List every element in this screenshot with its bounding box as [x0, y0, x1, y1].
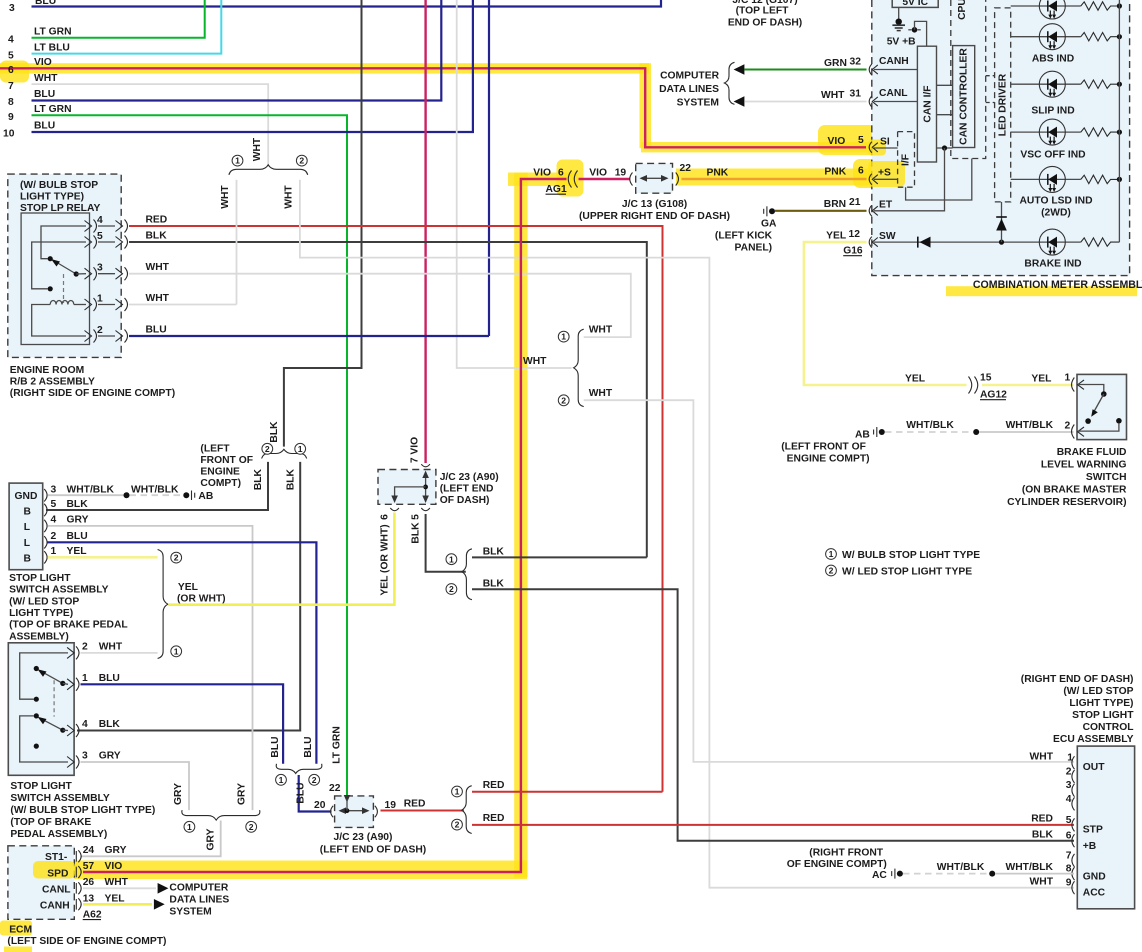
VSC OFF IND label — [1020, 150, 1085, 161]
G16 label underlined — [843, 246, 863, 257]
svg-text:3: 3 — [82, 751, 88, 762]
svg-text:WHT/BLK: WHT/BLK — [937, 862, 985, 873]
svg-text:WHT/BLK: WHT/BLK — [906, 420, 954, 431]
node 2 circle BLK brace — [262, 443, 273, 454]
bulb switch pin 3 connector — [67, 756, 79, 769]
svg-text:22: 22 — [680, 163, 692, 174]
bulb switch blade upper with arrow — [38, 669, 69, 686]
node 7 — [8, 81, 14, 92]
ET internal wire to junction — [874, 148, 945, 211]
svg-text:24: 24 — [83, 845, 95, 856]
legend text 1 — [842, 550, 980, 561]
BLU under-brace — [276, 764, 322, 774]
svg-text:GND: GND — [15, 491, 38, 502]
relay switch blade with arrow — [51, 259, 76, 274]
LED DRIVER dashed box — [995, 8, 1011, 202]
svg-text:SYSTEM: SYSTEM — [169, 907, 211, 918]
ECM pin 24 labels — [83, 845, 127, 856]
ECU pin 6 arc — [1072, 834, 1075, 847]
svg-text:R/B 2 ASSEMBLY: R/B 2 ASSEMBLY — [10, 377, 95, 388]
svg-text:(RIGHT FRONT: (RIGHT FRONT — [809, 848, 883, 859]
ECU pin 1 arc — [1072, 756, 1075, 769]
highlight marker VIO 5 label blob at meter — [818, 125, 886, 155]
svg-text:WHT: WHT — [220, 185, 231, 209]
svg-text:BLU: BLU — [296, 782, 307, 803]
svg-text:FRONT OF: FRONT OF — [200, 455, 253, 466]
relay pin 5 wire BLK to vertical — [129, 242, 647, 557]
svg-text:BLK: BLK — [99, 719, 121, 730]
LT GRN entry arrow pin 22 — [344, 795, 351, 803]
svg-text:LEVEL WARNING: LEVEL WARNING — [1041, 460, 1127, 471]
labels BRN 21 — [824, 197, 861, 210]
LED switch caption — [9, 573, 128, 643]
AB label — [198, 491, 213, 502]
svg-text:(LEFT KICK: (LEFT KICK — [715, 231, 773, 242]
LED row 5 wire — [1011, 178, 1081, 180]
svg-text:1: 1 — [51, 546, 57, 557]
highlight marker over SPD label in ECM — [33, 861, 75, 879]
ECM pin name SPD — [47, 868, 68, 879]
svg-text:SI: SI — [880, 137, 890, 148]
combination meter caption — [973, 279, 1142, 291]
relay pin 2 number — [97, 325, 103, 336]
svg-text:COMPT): COMPT) — [200, 478, 241, 489]
ECM pin 57 connector — [76, 866, 81, 878]
brake switch pin 2 connector — [1072, 425, 1084, 439]
svg-text:GND: GND — [1083, 872, 1106, 883]
AUTO LSD IND label — [1019, 196, 1092, 219]
svg-text:WHT: WHT — [589, 325, 613, 336]
label BLK rotated branch 1 — [285, 468, 296, 490]
J/C 23 lower pin 20 arc — [331, 806, 334, 818]
svg-text:GRY: GRY — [105, 845, 127, 856]
AC connector symbol — [872, 869, 903, 881]
relay assembly caption — [10, 365, 175, 399]
labels WHT 31 — [821, 89, 861, 102]
svg-text:(TOP OF BRAKE: (TOP OF BRAKE — [10, 817, 91, 828]
svg-text:COMPUTER: COMPUTER — [169, 883, 228, 894]
svg-text:RED: RED — [146, 215, 168, 226]
pin 2 labels — [51, 531, 88, 542]
bulb switch pin 4 connector — [67, 724, 79, 737]
svg-text:AG1: AG1 — [546, 184, 567, 195]
wire 8 label BLU — [34, 89, 55, 100]
svg-text:SW: SW — [879, 231, 896, 242]
wire 7 label WHT — [34, 73, 58, 84]
LED switch pin labels inside — [15, 491, 38, 565]
svg-text:21: 21 — [849, 197, 861, 208]
svg-text:4: 4 — [1066, 794, 1072, 805]
BRAKE IND label — [1024, 259, 1081, 270]
computer data lines arrow CANH — [734, 64, 745, 75]
legend text 2 — [842, 567, 972, 578]
svg-text:WHT: WHT — [1030, 751, 1054, 762]
J/C 23 lower pin 19 arc — [375, 806, 378, 818]
wire 4 label LT GRN — [34, 27, 72, 38]
svg-text:3: 3 — [97, 263, 103, 274]
pin 3 labels — [82, 751, 121, 762]
bulb switch caption — [10, 781, 155, 840]
AB tick bars — [192, 491, 195, 501]
svg-text:WHT: WHT — [99, 642, 123, 653]
LED row 4 wire — [1011, 131, 1081, 133]
svg-text:(TOP LEFT: (TOP LEFT — [736, 6, 790, 17]
svg-text:YEL: YEL — [105, 894, 125, 905]
wire BLK branch 1 to switch pin 4 — [77, 462, 300, 731]
label WHT on trunk — [523, 356, 547, 367]
svg-text:(RIGHT END OF DASH): (RIGHT END OF DASH) — [1021, 674, 1134, 685]
relay mechanical dashed link — [63, 274, 65, 303]
ECU wire labels — [1006, 751, 1054, 887]
wire 7 VIO vertical trunk to J/C 23 — [424, 0, 426, 463]
svg-text:2: 2 — [174, 553, 179, 563]
svg-text:WHT: WHT — [1030, 876, 1054, 887]
J/C 13 internal double arrow — [640, 175, 669, 182]
brake switch blade with arrow — [1091, 394, 1104, 417]
J/C 23 upper internal branch to left with arrow — [391, 487, 425, 503]
svg-text:END OF DASH): END OF DASH) — [728, 18, 802, 29]
svg-text:BLK: BLK — [483, 547, 505, 558]
svg-text:1: 1 — [561, 332, 566, 342]
highlight marker under COMBINATION METER ASSEMBLY caption — [946, 286, 1137, 296]
wire WHT/BLK to pin 2 — [979, 431, 1073, 433]
highlight marker over +S pin area — [868, 161, 905, 187]
svg-text:ENGINE ROOM: ENGINE ROOM — [10, 365, 84, 376]
computer data lines brace top — [724, 62, 734, 104]
relay blade to pin 3 — [76, 273, 86, 275]
wire BLU vertical to relay pin 2 — [488, 0, 490, 336]
labels YEL 1 — [1031, 373, 1070, 385]
svg-text:(OR WHT): (OR WHT) — [177, 594, 226, 605]
svg-text:57: 57 — [83, 861, 95, 872]
LED row 1 wire — [1011, 5, 1081, 7]
pin 4 labels — [82, 719, 120, 730]
bulb switch inner path pin 3 — [20, 716, 68, 762]
svg-text:1: 1 — [187, 822, 192, 832]
brake switch right contact dot — [1116, 418, 1122, 424]
pin 19 label — [385, 800, 397, 811]
label BLK rotated on trunk — [269, 421, 280, 443]
relay pin 1 number — [97, 294, 103, 305]
svg-text:BLU: BLU — [34, 89, 55, 100]
svg-text:BLU: BLU — [67, 531, 88, 542]
svg-text:L: L — [24, 538, 30, 549]
svg-text:ASSEMBLY): ASSEMBLY) — [9, 631, 69, 642]
computer data lines arrow 2 — [154, 899, 165, 910]
node 4 — [8, 35, 14, 46]
wire WHT branch 1 vertical to relay pin 1 — [236, 180, 238, 305]
svg-text:STP: STP — [1083, 825, 1103, 836]
meter pin CANL — [869, 88, 907, 107]
svg-text:(W/ BULB STOP LIGHT TYPE): (W/ BULB STOP LIGHT TYPE) — [10, 805, 155, 816]
label RED branch 2 — [483, 813, 505, 824]
ECM pin 13 labels — [83, 894, 125, 905]
AC location caption — [787, 848, 887, 871]
relay contact dot upper — [48, 256, 53, 261]
wire BLK branch 2 long run to ECU +B — [472, 589, 1074, 840]
BLU stem wire to J/C 23 pin 20 — [299, 775, 332, 812]
LED row 6 resistor — [1081, 238, 1120, 246]
label 5V +B — [887, 37, 916, 48]
svg-text:32: 32 — [850, 57, 862, 68]
LED row 1 rail dot — [1117, 3, 1122, 8]
svg-text:2: 2 — [249, 822, 254, 832]
svg-text:J/C 13 (G108): J/C 13 (G108) — [622, 199, 687, 210]
wire YEL from SW to AG12 — [804, 242, 967, 385]
wire BLK 5 stem from J/C 23 — [426, 514, 466, 572]
LED row 1 resistor — [1081, 2, 1120, 10]
svg-text:BLU: BLU — [35, 0, 56, 7]
LED switch pin 2 wire BLU — [48, 542, 317, 764]
label WHT rotated above brace — [252, 137, 263, 161]
svg-text:WHT: WHT — [146, 293, 170, 304]
svg-text:1: 1 — [1067, 753, 1073, 764]
AB ground point text block mid left — [200, 444, 253, 490]
labels WHT/BLK row — [906, 420, 1070, 432]
J/C 23 upper internal junction dot — [423, 485, 428, 490]
pin 22 label at J/C13 — [680, 163, 692, 174]
label RED branch 1 — [483, 780, 505, 791]
bulb switch pin 2 connector — [67, 646, 79, 659]
relay contact dot lower — [48, 286, 53, 291]
computer data lines arrow 1 — [158, 883, 169, 894]
relay caption line 3 — [20, 203, 100, 214]
svg-text:CANL: CANL — [879, 88, 908, 99]
svg-text:(W/ LED STOP: (W/ LED STOP — [9, 596, 79, 607]
svg-text:PNK: PNK — [707, 168, 729, 179]
relay blade pivot dot — [74, 271, 79, 276]
ECM pin name CANL — [42, 884, 71, 895]
svg-text:BLK: BLK — [483, 578, 505, 589]
svg-text:STOP LIGHT: STOP LIGHT — [9, 573, 71, 584]
LED driver link stubs — [986, 76, 995, 103]
svg-text:ET: ET — [879, 200, 893, 211]
svg-text:BLK: BLK — [146, 231, 168, 242]
svg-text:GRN: GRN — [824, 58, 847, 69]
svg-text:CPU: CPU — [957, 0, 968, 20]
highlight marker wire 6 to SI band — [641, 142, 880, 152]
CAN I/F to controller link 1 — [937, 84, 953, 86]
svg-text:DATA LINES: DATA LINES — [169, 895, 229, 906]
LED common rail — [1118, 0, 1120, 242]
A62 connector label — [83, 910, 102, 921]
svg-text:6: 6 — [380, 514, 391, 520]
svg-text:3: 3 — [9, 3, 15, 14]
node 2 circle near relay brace — [296, 155, 307, 166]
5V IC box (clipped) — [892, 0, 938, 8]
highlight marker along wire 6 VIO horizontal band — [0, 63, 649, 73]
brace RED 1-2 — [462, 786, 472, 834]
wire 5 LT BLU — [32, 0, 222, 54]
label BLU rotated branch 2 — [303, 736, 314, 757]
svg-text:AUTO LSD IND: AUTO LSD IND — [1019, 196, 1092, 207]
svg-text:LT GRN: LT GRN — [332, 726, 343, 764]
svg-text:RED: RED — [404, 799, 426, 810]
relay pin 3 wire WHT to vertical — [129, 274, 631, 337]
ECM pin 13 connector — [76, 898, 81, 910]
wire GRN to CANH — [744, 69, 866, 71]
svg-text:2: 2 — [1066, 767, 1072, 778]
node 2 circle YEL brace — [171, 552, 182, 563]
relay pin 4 connectors — [85, 220, 128, 233]
label GRY rotated branch 2 — [237, 783, 248, 805]
ECM pin 13 wire YEL — [83, 903, 152, 906]
brake switch internal wire pin 1 — [1079, 385, 1104, 392]
brake switch internal wire pin 2 — [1079, 423, 1119, 431]
wire 7 WHT — [32, 84, 269, 166]
AG1 label underlined — [546, 184, 567, 195]
svg-text:19: 19 — [615, 168, 627, 179]
svg-text:WHT/BLK: WHT/BLK — [1006, 420, 1054, 431]
svg-text:B: B — [24, 554, 31, 565]
LED switch pin 4 wire GRY — [48, 526, 253, 810]
svg-text:SWITCH ASSEMBLY: SWITCH ASSEMBLY — [10, 793, 109, 804]
relay pin 1 connectors — [85, 298, 128, 311]
svg-text:I/F: I/F — [901, 154, 912, 166]
wire 3 BLU horizontal — [32, 0, 662, 7]
bulb switch fixed dot (lower section) — [34, 713, 39, 718]
relay pin 4 wire label RED — [146, 215, 168, 226]
svg-text:6: 6 — [1066, 831, 1072, 842]
svg-text:BRN: BRN — [824, 199, 846, 210]
svg-text:A62: A62 — [83, 910, 102, 921]
labels VIO 5 at SI — [828, 135, 865, 147]
svg-text:2: 2 — [97, 325, 103, 336]
svg-text:4: 4 — [97, 215, 103, 226]
bulb switch fixed dot upper — [34, 666, 39, 671]
ECM pin 57 labels — [83, 861, 123, 872]
brake switch contact dot top — [1101, 391, 1107, 397]
CAN I/F to controller link 3 — [937, 147, 953, 149]
label BLU rotated branch 1 — [270, 736, 281, 757]
node 2 circle mid BLK — [446, 584, 457, 595]
relay contact feed pin 4 path — [41, 226, 86, 259]
svg-text:WHT: WHT — [283, 185, 294, 209]
meter pin CANH — [869, 56, 909, 75]
svg-text:ACC: ACC — [1083, 888, 1106, 899]
relay coil wiring — [32, 305, 86, 337]
label WHT rotated branch 2 — [283, 185, 294, 209]
svg-text:VIO: VIO — [828, 136, 846, 147]
ECM pin 26 labels — [83, 877, 129, 888]
node 1 circle near relay brace — [232, 155, 243, 166]
highlight marker over SI pin area — [868, 140, 886, 156]
svg-text:WHT: WHT — [34, 73, 58, 84]
wire WHT branch 2 long run to ECU ACC — [300, 180, 1074, 888]
svg-text:BLU: BLU — [303, 736, 314, 757]
svg-text:YEL: YEL — [67, 546, 87, 557]
svg-text:BLK: BLK — [1032, 829, 1054, 840]
svg-text:5: 5 — [97, 231, 103, 242]
YEL brace closing — [158, 550, 168, 659]
GRY under-brace — [182, 810, 260, 820]
AB splice dot — [183, 492, 189, 498]
relay caption line 2 — [20, 192, 84, 203]
svg-text:YEL: YEL — [1031, 374, 1051, 385]
label WHT/BLK mid — [937, 862, 985, 873]
svg-text:VIO: VIO — [34, 57, 52, 68]
node 9 — [8, 112, 14, 123]
GRY stem wire to ECM pin 24 — [81, 821, 221, 857]
svg-text:6: 6 — [558, 168, 564, 179]
svg-text:2: 2 — [51, 531, 57, 542]
highlight marker SPD label blob in ECM — [33, 861, 78, 880]
GA connector symbol — [764, 206, 775, 216]
highlight marker SPD VIO vertical band — [514, 173, 527, 878]
svg-text:CANH: CANH — [879, 56, 909, 67]
wire YEL from AG12 to brake fluid switch pin 1 — [982, 384, 1074, 387]
svg-text:ECU ASSEMBLY: ECU ASSEMBLY — [1053, 734, 1134, 745]
wire VIO 19 from AG1 to J/C 13 — [579, 178, 631, 180]
pin 3 number and color labels — [51, 485, 180, 496]
brace WHT 1-2 near J/C 23 — [574, 329, 584, 406]
svg-text:4: 4 — [8, 35, 14, 46]
bulb switch pin 1 connector — [67, 678, 79, 691]
svg-text:2: 2 — [449, 584, 454, 594]
wire 8 BLU — [32, 0, 442, 101]
svg-text:BLU: BLU — [146, 325, 167, 336]
bulb switch pin 1 wire BLU — [81, 684, 284, 764]
J/C 13 (G108) junction box — [636, 163, 673, 193]
LED row 5 resistor — [1081, 175, 1120, 183]
label BLU rotated on stem — [296, 782, 307, 803]
I/F bottom wire to CPU — [906, 159, 972, 201]
svg-text:YEL: YEL — [178, 582, 198, 593]
highlight marker on wire 6 VIO row left blob — [0, 61, 29, 83]
ECU pin 7 arc — [1072, 854, 1075, 867]
svg-text:DATA LINES: DATA LINES — [659, 84, 719, 95]
svg-text:WHT: WHT — [821, 90, 845, 101]
svg-text:6: 6 — [858, 166, 864, 177]
relay pin 4 wire RED to vertical — [129, 226, 663, 792]
svg-text:OUT: OUT — [1083, 762, 1105, 773]
SW internal wire with diode — [874, 241, 1040, 243]
diode branch up to LED driver — [996, 202, 1007, 242]
J/C 23 upper pin arcs bottom — [390, 508, 430, 511]
svg-text:+B: +B — [1083, 841, 1096, 852]
svg-text:LT BLU: LT BLU — [34, 42, 70, 53]
YEL (OR WHT) label — [177, 582, 226, 605]
svg-text:BLK: BLK — [67, 499, 89, 510]
svg-text:AB: AB — [198, 491, 213, 502]
wire RED branch 1 (to relay pin 4 riser) — [472, 791, 663, 793]
highlight marker bottom-left edge blob — [4, 947, 32, 952]
CAN CONTROLLER box — [953, 46, 975, 148]
bulb switch pin 2 wire WHT to brace — [81, 652, 158, 654]
GA label — [761, 219, 777, 230]
svg-text:5: 5 — [8, 50, 14, 61]
svg-text:5: 5 — [1066, 815, 1072, 826]
combination meter dashed box — [872, 0, 1130, 276]
svg-text:5: 5 — [51, 499, 57, 510]
ECU pin 3 arc — [1072, 784, 1075, 797]
svg-text:13: 13 — [83, 894, 95, 905]
svg-text:10: 10 — [3, 129, 15, 140]
wire 10 BLU — [32, 0, 473, 132]
node 1 circle BLU — [276, 774, 287, 785]
svg-text:RED: RED — [483, 780, 505, 791]
svg-text:BLK: BLK — [411, 522, 422, 544]
wire 6 VIO highlighted to SI — [0, 68, 866, 147]
wire BLK branch 2 to switch pin B5 — [46, 462, 268, 510]
svg-text:2: 2 — [312, 775, 317, 785]
svg-text:1: 1 — [829, 549, 834, 559]
SW diode — [918, 237, 931, 248]
svg-text:VIO: VIO — [533, 168, 551, 179]
ECM pin name ST1- — [45, 852, 68, 863]
LED row 5 indicator — [1039, 166, 1065, 192]
svg-text:ABS IND: ABS IND — [1032, 54, 1074, 65]
